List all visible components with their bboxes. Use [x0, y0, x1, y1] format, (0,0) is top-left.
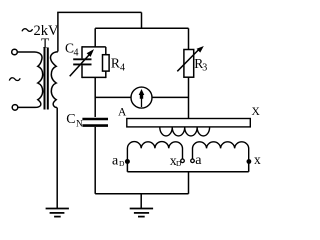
galvanometer meter — [131, 87, 152, 108]
capacitor CN plates — [82, 119, 108, 126]
label R3 — [194, 56, 207, 74]
svg-text:4: 4 — [74, 48, 79, 59]
label C4 — [65, 41, 79, 59]
transformer T core — [45, 48, 48, 110]
svg-text:N: N — [76, 119, 83, 129]
svg-text:x: x — [254, 152, 261, 167]
wire: drop to R3 — [188, 28, 190, 49]
svg-text:D: D — [176, 159, 182, 168]
label xD — [170, 154, 182, 169]
ground center — [130, 209, 153, 217]
svg-text:a: a — [195, 153, 202, 168]
wire: drop to C4/R4 box — [94, 28, 96, 47]
resistor R3 variable arrow — [177, 46, 204, 71]
label ~2kV — [22, 23, 59, 39]
capacitor C4 plates — [73, 59, 91, 64]
wire: riser rail1 to rail2 — [188, 172, 190, 194]
wire: second rail — [95, 27, 188, 29]
wire: mid drop from top rail — [141, 12, 143, 28]
wire: meter branch left — [95, 96, 131, 98]
wire: CN bottom down — [94, 127, 96, 194]
svg-text:a: a — [112, 154, 119, 169]
AC source symbol ~ — [9, 78, 20, 81]
wire: aD drop to bottom rail — [126, 161, 128, 171]
wire: transformer secondary ground line — [56, 108, 58, 209]
wire: C4 branch upper — [81, 46, 83, 58]
secondary winding aD-xD coil — [127, 142, 182, 161]
transformer T primary terminal top — [12, 49, 18, 55]
wire: ground rail — [95, 193, 188, 195]
wire: R4 branch lower — [105, 71, 107, 78]
wire: secondary top riser — [57, 12, 59, 51]
svg-text:A: A — [118, 106, 127, 118]
capacitor C4 parallel box top edge — [82, 46, 106, 48]
capacitor C4 variable arrow — [70, 49, 94, 76]
transformer T secondary winding — [50, 52, 57, 108]
terminal xD circle — [181, 159, 185, 163]
terminal x dot — [247, 159, 252, 164]
svg-text:C: C — [66, 112, 75, 127]
capacitor C4 parallel box bottom edge — [82, 76, 106, 78]
label aD — [112, 154, 125, 169]
terminal bar A-X — [127, 119, 251, 127]
svg-text:R: R — [111, 56, 120, 71]
secondary winding a-x coil — [193, 142, 249, 161]
wire: secondary bottom rail — [127, 171, 248, 173]
resistor R4 — [103, 55, 110, 71]
transformer T primary terminal bottom — [12, 105, 18, 111]
wire: C4 branch lower — [81, 65, 83, 78]
wire: R3 bottom down to bar — [188, 77, 190, 118]
svg-text:X: X — [252, 106, 261, 118]
transformer T primary winding — [17, 52, 42, 107]
high-voltage winding coil under bar — [160, 127, 210, 136]
svg-text:3: 3 — [202, 63, 207, 74]
terminal a circle — [191, 159, 195, 163]
wire: x drop to bottom rail — [248, 161, 250, 172]
wire: meter branch right — [152, 96, 189, 98]
terminal aD dot — [125, 159, 130, 164]
ground left — [46, 209, 69, 217]
resistor R3 — [184, 50, 194, 78]
wire: center ground stem — [140, 194, 142, 209]
svg-text:D: D — [119, 159, 125, 168]
label CN — [66, 112, 83, 129]
wire: R4 branch upper — [105, 47, 107, 55]
svg-text:4: 4 — [120, 63, 125, 74]
wire: box output down — [94, 77, 96, 117]
wire: top rail — [57, 11, 141, 13]
label R4 — [111, 56, 125, 74]
